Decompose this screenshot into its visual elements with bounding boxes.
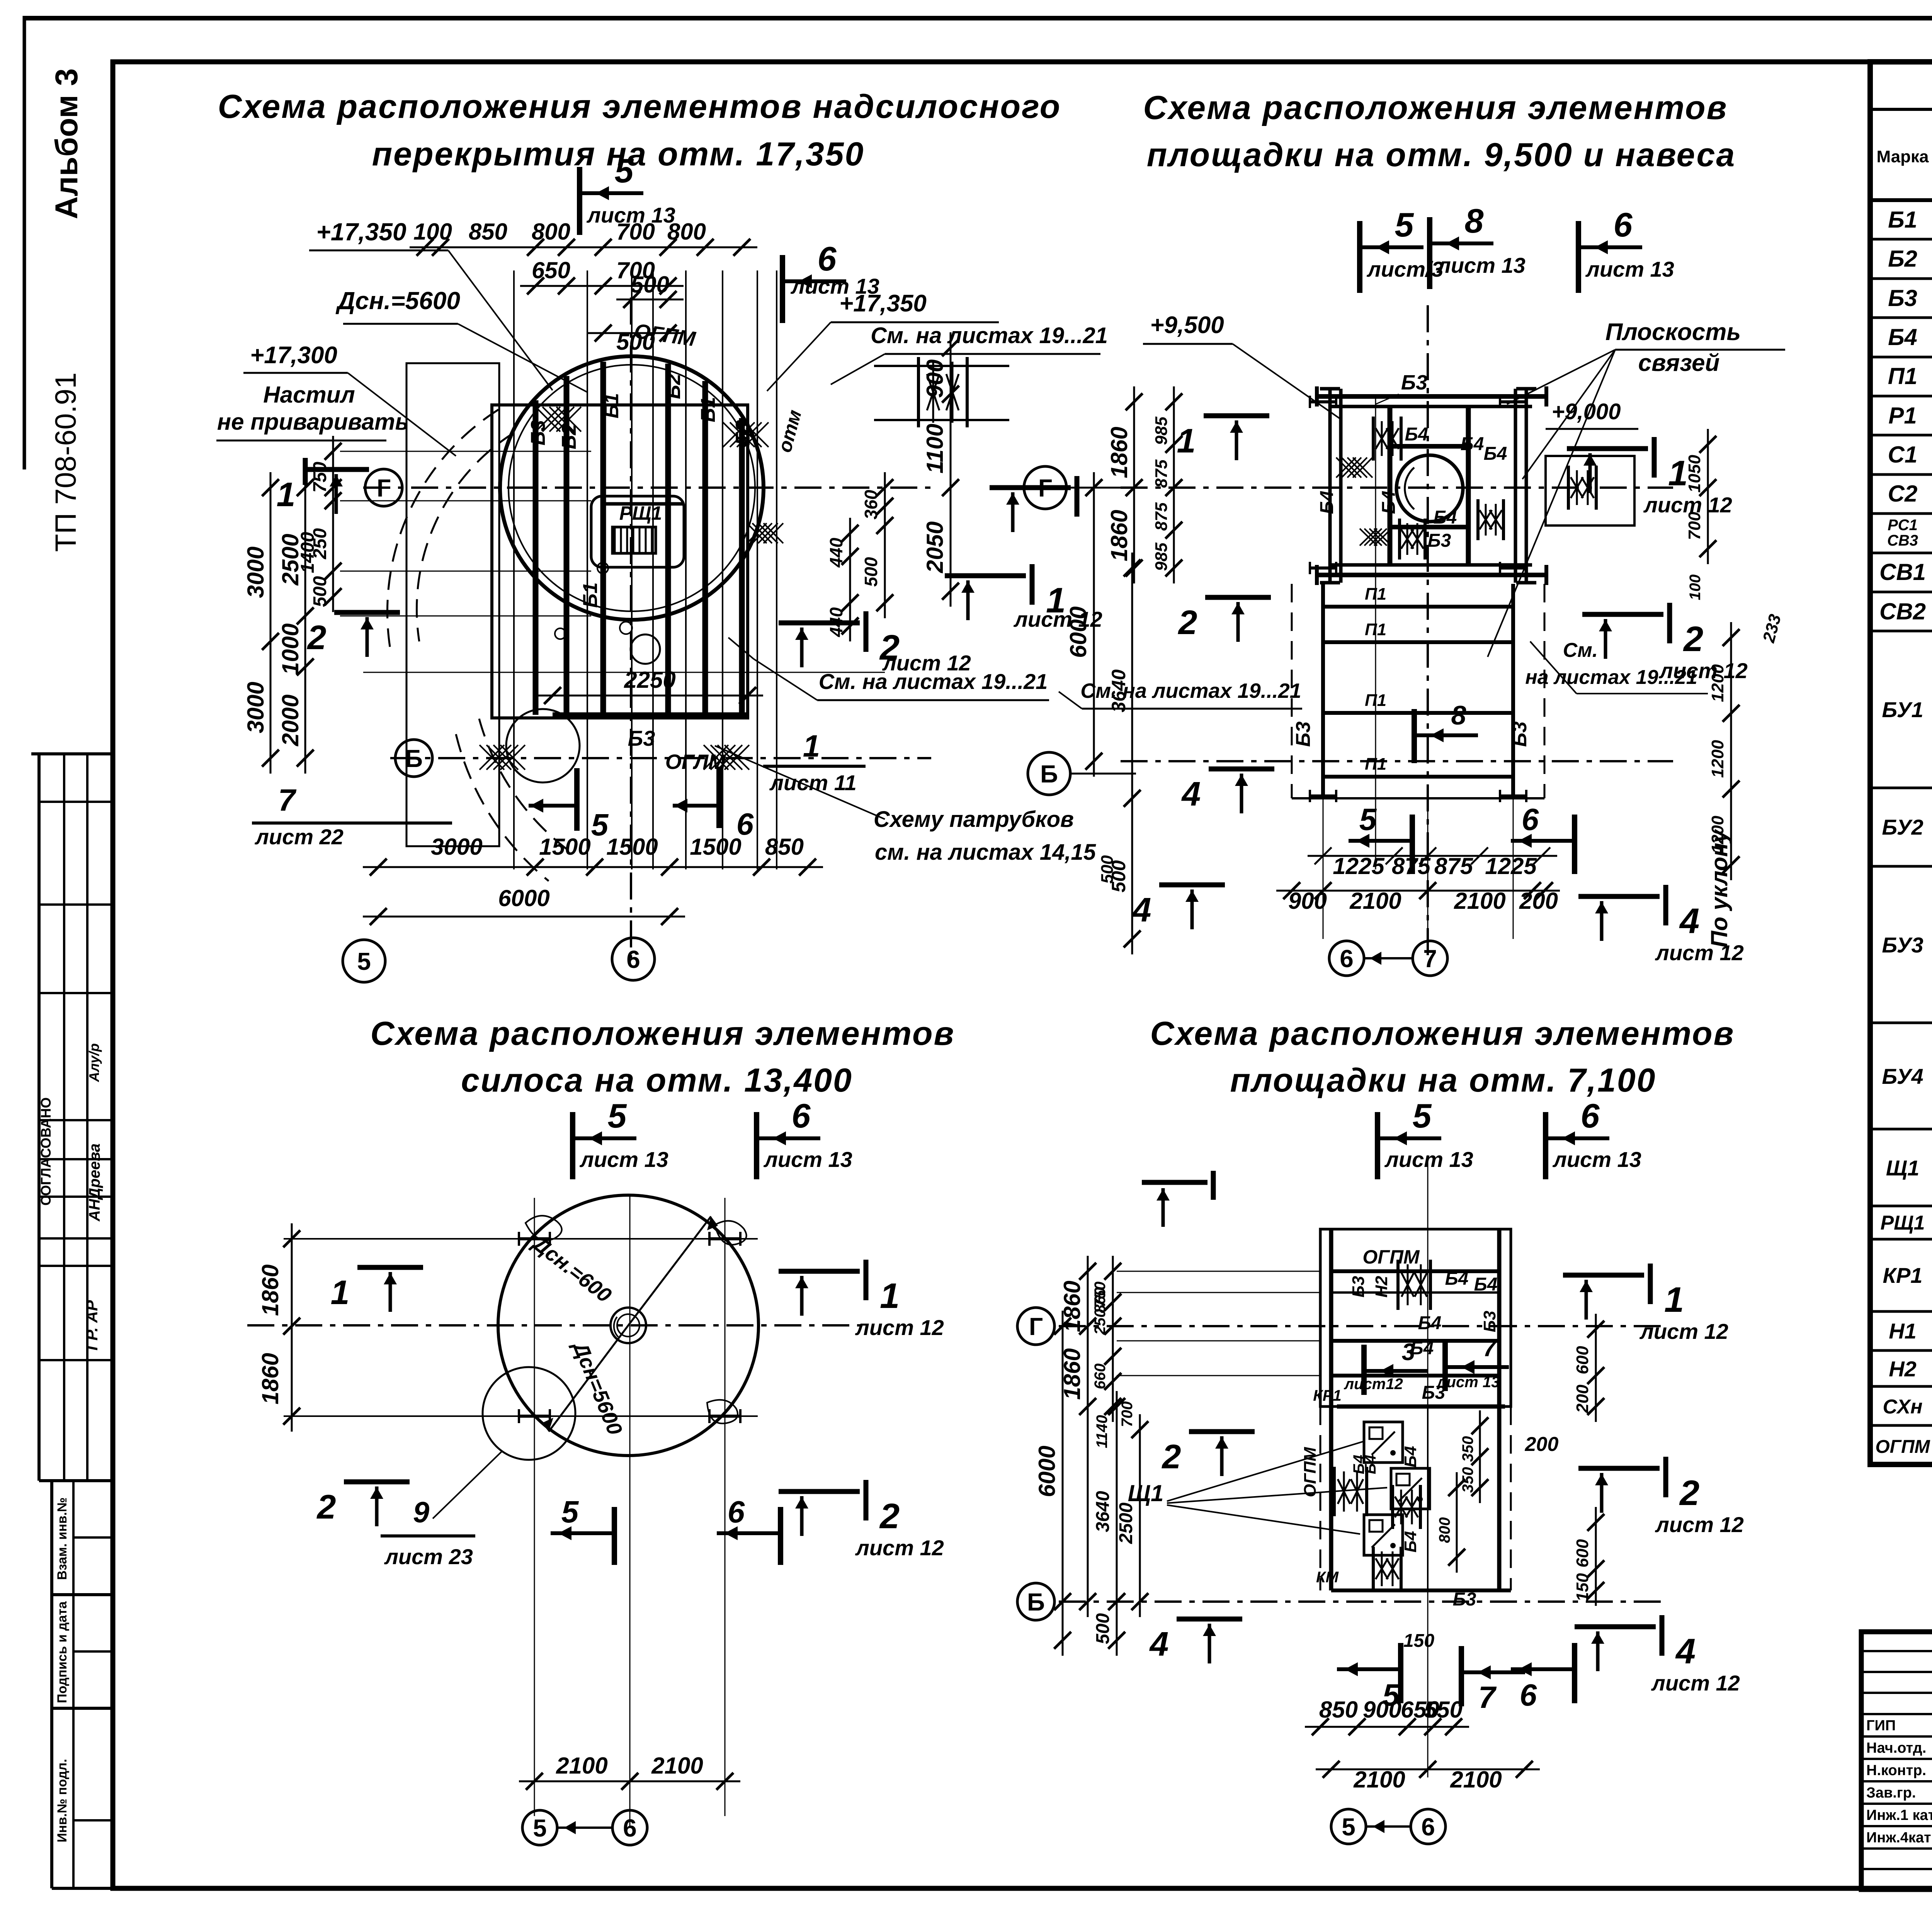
svg-text:850: 850 [1319,1697,1358,1723]
svg-text:5: 5 [1359,802,1377,837]
svg-text:СВ1: СВ1 [1879,559,1926,585]
svg-text:5: 5 [608,1097,627,1135]
svg-text:Б3: Б3 [628,726,655,750]
svg-text:СХн: СХн [1883,1396,1923,1418]
svg-text:700: 700 [1119,1401,1136,1427]
svg-text:Б3: Б3 [1401,371,1427,394]
svg-text:500: 500 [861,557,881,587]
svg-text:Плоскость: Плоскость [1605,319,1741,345]
svg-text:лист 23: лист 23 [384,1544,473,1569]
svg-text:985: 985 [1152,543,1171,571]
svg-text:Б1: Б1 [1888,207,1917,233]
svg-text:6: 6 [736,807,754,841]
svg-text:500: 500 [1098,855,1117,884]
svg-text:Дсн.=5600: Дсн.=5600 [335,287,460,315]
svg-text:лист 12: лист 12 [855,1536,944,1560]
svg-text:Б1: Б1 [697,397,719,422]
svg-text:Б4: Б4 [1445,1269,1469,1289]
svg-text:Б1: Б1 [600,393,623,418]
svg-text:Б3: Б3 [1428,531,1451,551]
svg-text:РС1: РС1 [1888,517,1918,534]
svg-text:лист 13: лист 13 [579,1147,668,1172]
svg-text:2100: 2100 [556,1753,607,1779]
svg-text:площадки на отм. 7,100: площадки на отм. 7,100 [1230,1062,1656,1099]
svg-text:Б3: Б3 [1292,721,1315,747]
svg-text:РЩ1: РЩ1 [619,502,662,524]
svg-text:Б4: Б4 [1379,491,1399,514]
svg-text:Б2: Б2 [1888,246,1917,272]
svg-text:4: 4 [1132,891,1151,929]
svg-text:800: 800 [1436,1517,1453,1543]
svg-text:2: 2 [1178,603,1197,641]
svg-text:Схема расположения элементов: Схема расположения элементов [1143,89,1728,126]
svg-text:лист 12: лист 12 [1651,1671,1740,1695]
svg-text:8: 8 [1451,700,1466,730]
svg-text:Б3: Б3 [1509,721,1531,747]
svg-text:Б4: Б4 [1401,1446,1420,1468]
svg-text:П1: П1 [1888,363,1918,389]
svg-text:500: 500 [1093,1613,1113,1644]
svg-text:2: 2 [1679,1473,1699,1513]
svg-text:2: 2 [1162,1437,1181,1476]
svg-text:1: 1 [880,1276,900,1316]
svg-text:Зав.гр.: Зав.гр. [1866,1785,1916,1801]
svg-text:200: 200 [1519,888,1558,914]
svg-text:3000: 3000 [243,546,269,598]
svg-text:См. на листах 19...21: См. на листах 19...21 [1080,679,1301,702]
svg-text:360: 360 [861,490,881,519]
svg-text:См.: См. [1563,639,1598,662]
svg-text:6: 6 [818,240,837,278]
svg-text:3640: 3640 [1093,1491,1113,1532]
svg-text:5: 5 [1413,1097,1432,1135]
svg-text:лист 13: лист 13 [763,1147,852,1172]
svg-text:985: 985 [1152,417,1171,445]
svg-text:350: 350 [1459,1436,1476,1462]
svg-text:лист12: лист12 [1344,1376,1403,1393]
svg-text:КР1: КР1 [1883,1263,1923,1287]
svg-text:ОГПМ: ОГПМ [1301,1447,1320,1497]
svg-text:+17,350: +17,350 [839,290,927,317]
svg-text:+17,300: +17,300 [250,342,337,369]
svg-text:800: 800 [532,219,570,245]
svg-text:750: 750 [310,462,330,493]
svg-text:Инж.1 кат.: Инж.1 кат. [1866,1807,1932,1823]
svg-text:Инж.4кат: Инж.4кат [1866,1830,1931,1846]
svg-text:9: 9 [413,1496,429,1529]
svg-text:660: 660 [1092,1364,1109,1389]
svg-text:1: 1 [277,475,296,514]
svg-text:лист 12: лист 12 [855,1315,944,1340]
svg-text:площадки на отм. 9,500 и: площадки на отм. 9,500 и навеса [1147,136,1736,173]
svg-text:Г: Г [377,474,391,502]
svg-text:Взам. инв.№: Взам. инв.№ [55,1497,70,1580]
svg-text:Б4: Б4 [1405,424,1429,445]
svg-text:860: 860 [1092,1287,1109,1313]
svg-text:1: 1 [803,729,820,763]
svg-text:3000: 3000 [243,682,269,733]
svg-text:875: 875 [1434,853,1474,879]
svg-text:350: 350 [1459,1467,1476,1493]
svg-text:Б4: Б4 [1484,444,1507,464]
svg-text:100: 100 [413,219,452,245]
svg-text:Щ1: Щ1 [1886,1156,1920,1180]
svg-text:5: 5 [1342,1813,1355,1841]
svg-text:7: 7 [1478,1680,1497,1714]
svg-text:Б3: Б3 [1453,1589,1476,1610]
svg-text:4: 4 [1181,775,1201,813]
svg-text:Инв.№ подл.: Инв.№ подл. [55,1759,70,1842]
svg-text:лист 12: лист 12 [1655,1512,1744,1537]
svg-text:875: 875 [1152,502,1171,531]
svg-text:6: 6 [1614,206,1633,244]
svg-text:5: 5 [1395,206,1414,244]
svg-text:2100: 2100 [651,1753,703,1779]
svg-text:6000: 6000 [498,885,549,911]
svg-text:связей: связей [1638,350,1720,376]
svg-text:650: 650 [532,257,570,283]
svg-text:2100: 2100 [1454,888,1505,914]
svg-text:См. на листах 19...21: См. на листах 19...21 [819,669,1048,694]
svg-text:2: 2 [1683,619,1703,659]
svg-text:см. на листах 14,15: см. на листах 14,15 [875,840,1096,865]
svg-text:1: 1 [1177,422,1196,460]
svg-text:лист 13: лист 13 [1436,1374,1500,1391]
svg-text:Н2: Н2 [1889,1357,1917,1381]
svg-text:1: 1 [1664,1280,1684,1320]
svg-text:900: 900 [1288,888,1327,914]
svg-text:5: 5 [533,1814,547,1842]
svg-text:Б4: Б4 [1888,324,1917,350]
svg-text:6: 6 [626,946,640,973]
svg-text:Б3: Б3 [1480,1311,1499,1332]
svg-text:По уклону: По уклону [1706,829,1732,947]
svg-text:1050: 1050 [1685,455,1704,493]
svg-text:Н1: Н1 [1889,1319,1917,1343]
svg-text:2: 2 [307,618,327,656]
svg-text:Б4: Б4 [1461,434,1484,454]
svg-text:ОГПМ: ОГПМ [1875,1437,1930,1457]
svg-text:Б4: Б4 [1362,1455,1379,1475]
svg-text:С1: С1 [1888,442,1918,468]
svg-text:Алу/р: Алу/р [86,1043,102,1082]
svg-text:С2: С2 [1888,481,1918,507]
svg-text:6: 6 [728,1495,745,1529]
svg-text:СОГЛАСОВАНО: СОГЛАСОВАНО [38,1097,54,1206]
svg-text:Б: Б [1040,760,1058,788]
svg-text:Схема расположения элементов: Схема расположения элементов [371,1015,955,1052]
svg-text:150: 150 [1403,1631,1434,1651]
svg-text:5: 5 [357,947,371,975]
svg-text:850: 850 [469,219,507,245]
svg-text:лист 11: лист 11 [769,770,857,795]
svg-text:Б4: Б4 [1317,491,1337,514]
svg-text:5: 5 [615,151,634,190]
svg-text:1: 1 [331,1273,350,1311]
svg-text:Г: Г [1029,1313,1043,1340]
svg-text:600: 600 [1573,1539,1592,1568]
svg-text:Б2: Б2 [662,374,685,399]
svg-text:900: 900 [1363,1697,1401,1723]
svg-text:лист 12: лист 12 [1639,1319,1728,1344]
svg-text:Н2: Н2 [1372,1276,1391,1298]
svg-text:БУ1: БУ1 [1882,697,1923,722]
svg-text:8: 8 [1465,202,1484,240]
svg-text:2050: 2050 [922,521,948,573]
svg-text:1860: 1860 [1106,510,1132,561]
svg-text:1500: 1500 [690,834,741,860]
svg-text:Марка: Марка [1876,147,1929,166]
svg-text:АНДреева: АНДреева [86,1143,103,1221]
svg-text:БУ4: БУ4 [1882,1064,1923,1088]
svg-text:700: 700 [1685,512,1704,540]
svg-text:ГР. АР: ГР. АР [83,1300,101,1350]
svg-text:+17,350: +17,350 [316,218,406,246]
svg-text:550: 550 [1424,1697,1463,1723]
svg-text:1400: 1400 [298,532,318,573]
svg-text:100: 100 [1687,575,1704,600]
svg-text:5: 5 [561,1495,579,1529]
svg-text:6: 6 [623,1814,637,1842]
svg-text:Схема расположения элементов: Схема расположения элементов [1150,1015,1735,1052]
svg-text:875: 875 [1152,459,1171,488]
svg-text:2: 2 [879,1497,900,1536]
svg-text:1500: 1500 [539,834,590,860]
svg-text:1140: 1140 [1094,1415,1111,1448]
svg-text:Щ1: Щ1 [1128,1480,1164,1506]
svg-text:Б3: Б3 [1349,1276,1368,1298]
svg-text:не приваривать: не приваривать [217,409,409,435]
svg-text:Б4: Б4 [1418,1313,1442,1333]
svg-text:4: 4 [1679,901,1699,941]
svg-text:Б4: Б4 [1401,1531,1420,1553]
svg-text:2: 2 [316,1488,336,1526]
svg-text:1200: 1200 [1708,740,1727,778]
svg-text:6: 6 [1581,1097,1600,1135]
svg-text:6000: 6000 [1034,1446,1060,1497]
svg-text:6: 6 [1340,945,1354,973]
svg-text:СВ2: СВ2 [1879,599,1926,624]
svg-text:1500: 1500 [606,834,658,860]
svg-text:850: 850 [765,834,804,860]
svg-text:Альбом 3: Альбом 3 [49,68,84,219]
svg-text:силоса на отм. 13,400: силоса на отм. 13,400 [461,1062,853,1099]
svg-text:+9,000: +9,000 [1551,399,1621,424]
svg-text:1860: 1860 [1106,427,1132,478]
svg-text:6: 6 [1421,1813,1435,1841]
svg-text:2100: 2100 [1450,1767,1502,1793]
svg-text:Н.контр.: Н.контр. [1866,1762,1926,1779]
svg-text:БУ2: БУ2 [1882,815,1923,839]
svg-text:+9,500: +9,500 [1150,312,1224,338]
svg-text:1225: 1225 [1333,853,1385,879]
svg-text:Б4: Б4 [1434,507,1457,528]
svg-text:Б3: Б3 [1888,285,1917,311]
svg-text:2500: 2500 [1116,1502,1136,1544]
svg-text:6: 6 [1520,1678,1537,1712]
svg-text:на листах 19...21: на листах 19...21 [1525,666,1697,689]
svg-text:Схема расположения элементов: Схема расположения элементов надсилосног… [218,88,1061,125]
svg-text:лист 13: лист 13 [1436,253,1526,277]
svg-text:Схему патрубков: Схему патрубков [874,807,1074,832]
svg-text:200: 200 [1525,1433,1559,1456]
svg-text:Г: Г [1038,474,1052,502]
svg-text:2100: 2100 [1349,888,1401,914]
svg-text:1225: 1225 [1485,853,1537,879]
svg-text:440: 440 [826,537,846,568]
svg-text:600: 600 [1573,1346,1592,1374]
svg-text:БУ3: БУ3 [1882,933,1923,957]
svg-text:3000: 3000 [431,834,482,860]
svg-text:7: 7 [1483,1335,1497,1362]
svg-text:лист 13: лист 13 [1384,1147,1473,1172]
svg-text:1200: 1200 [1708,664,1727,702]
svg-text:КР1: КР1 [1313,1387,1342,1404]
svg-text:1860: 1860 [257,1353,283,1404]
svg-text:Настил: Настил [263,382,355,408]
svg-text:6000: 6000 [1065,606,1091,658]
svg-text:Нач.отд.: Нач.отд. [1866,1740,1926,1756]
svg-text:ТП 708-60.91: ТП 708-60.91 [49,372,82,552]
svg-text:лист 13: лист 13 [1585,257,1674,281]
svg-text:150: 150 [1573,1573,1592,1602]
svg-text:7: 7 [278,783,297,817]
svg-text:500: 500 [631,272,669,298]
svg-text:6: 6 [792,1097,811,1135]
svg-text:СВ3: СВ3 [1887,532,1918,549]
svg-text:Р1: Р1 [1888,403,1917,429]
svg-text:500: 500 [310,576,330,607]
svg-text:7: 7 [1423,945,1437,973]
svg-text:Б3: Б3 [527,420,549,446]
svg-text:2100: 2100 [1353,1767,1405,1793]
svg-text:КМ: КМ [1316,1569,1339,1586]
svg-text:Б4: Б4 [1474,1274,1498,1295]
svg-text:200: 200 [1573,1384,1592,1413]
svg-text:1860: 1860 [257,1264,283,1316]
svg-text:6: 6 [1522,802,1539,837]
svg-text:Б1: Б1 [579,582,602,608]
svg-text:4: 4 [1149,1625,1169,1663]
svg-text:5: 5 [591,808,609,842]
svg-text:2250: 2250 [624,667,675,693]
svg-text:лист 13: лист 13 [1552,1147,1641,1172]
svg-text:ГИП: ГИП [1866,1718,1896,1734]
svg-text:РЩ1: РЩ1 [1880,1212,1925,1234]
svg-text:ОГПМ: ОГПМ [1362,1246,1420,1268]
svg-text:2000: 2000 [277,694,303,746]
svg-text:См. на листах 19...21: См. на листах 19...21 [871,323,1108,348]
svg-text:1000: 1000 [277,623,303,675]
svg-text:Б: Б [405,745,423,772]
svg-text:лист 22: лист 22 [254,825,344,849]
svg-text:Подпись и дата: Подпись и дата [55,1601,70,1703]
svg-text:лист 13: лист 13 [586,203,675,227]
svg-text:1100: 1100 [922,423,948,473]
svg-text:4: 4 [1675,1632,1696,1671]
svg-text:3: 3 [1402,1339,1415,1366]
svg-text:Б: Б [1027,1588,1045,1616]
